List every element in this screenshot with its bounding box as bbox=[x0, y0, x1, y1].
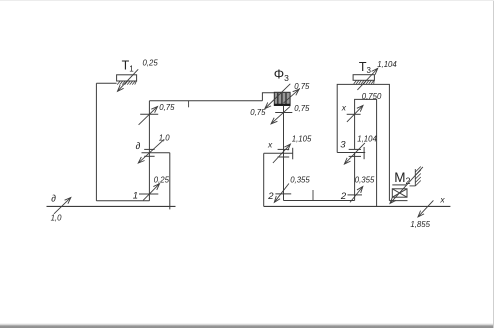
svg-text:2: 2 bbox=[340, 191, 347, 202]
arrow node (0,75) bbox=[139, 107, 158, 125]
value label 0,25 (T1) bbox=[143, 59, 159, 68]
node d upper bar bbox=[144, 148, 154, 150]
wire left loop bottom bbox=[96, 200, 149, 202]
label node 1 bbox=[133, 191, 138, 202]
svg-text:0,75: 0,75 bbox=[159, 103, 175, 112]
label node 2 left bbox=[267, 191, 274, 202]
arrow through T3 (1,104) bbox=[357, 69, 377, 90]
value label 0,75 (Phi3 down) bbox=[250, 108, 266, 117]
tick on inner bottom wire bbox=[312, 190, 314, 201]
node 3 long bar bbox=[337, 152, 365, 154]
arrow Phi3 down (0,75) bbox=[265, 84, 290, 109]
node x right bracket bbox=[292, 148, 294, 160]
label node 2 right bbox=[340, 191, 347, 202]
wire step to Phi3 bbox=[262, 93, 274, 101]
node 1 tick bar bbox=[139, 193, 158, 195]
svg-text:0,75: 0,75 bbox=[294, 104, 310, 113]
value label 1,0 (left axis) bbox=[51, 213, 63, 222]
arrow through T1 (0,25) bbox=[118, 69, 139, 91]
node 0,75 tick bar bbox=[140, 113, 158, 115]
wire left vertical bbox=[95, 83, 97, 201]
value label 0,75 (below Phi3) bbox=[294, 104, 310, 113]
arrow node 2 left (0,355) bbox=[274, 184, 289, 203]
node x lower bar bbox=[278, 156, 290, 158]
svg-text:T3: T3 bbox=[359, 60, 372, 75]
node x upper bar bbox=[278, 148, 290, 150]
svg-text:0,750: 0,750 bbox=[362, 92, 382, 101]
label Phi3 bbox=[274, 67, 289, 83]
block M2 crossed box bbox=[392, 189, 407, 197]
wire below Phi3 bbox=[283, 105, 285, 200]
svg-text:1,104: 1,104 bbox=[357, 134, 377, 143]
svg-text:x: x bbox=[439, 194, 445, 204]
arrow node 2 right (0,355) bbox=[350, 187, 363, 203]
svg-text:1,104: 1,104 bbox=[377, 60, 397, 69]
arrow through M2 (1,855) bbox=[390, 167, 423, 203]
value label 0,75 (upper node) bbox=[159, 103, 175, 112]
svg-text:1,0: 1,0 bbox=[159, 134, 171, 143]
label node 3 bbox=[340, 140, 346, 151]
wire top horizontal bbox=[149, 100, 262, 102]
node d long bar bbox=[142, 152, 170, 154]
arrow Phi3 up (0,75) bbox=[284, 89, 299, 103]
bar below M2 bbox=[389, 200, 407, 202]
label x at axis end bbox=[439, 194, 445, 204]
svg-text:x: x bbox=[341, 103, 347, 113]
block Phi3 (hatched) bbox=[274, 92, 290, 105]
label node d bbox=[136, 141, 141, 152]
arrow node d (1,0) bbox=[138, 139, 164, 163]
axis line right bbox=[264, 205, 451, 207]
svg-text:x: x bbox=[267, 140, 273, 150]
arrow node x T3 (0,750) bbox=[347, 106, 363, 122]
svg-text:Φ3: Φ3 bbox=[274, 67, 289, 83]
arrow node 1 (0,25) bbox=[143, 184, 159, 201]
svg-text:0,75: 0,75 bbox=[294, 82, 310, 91]
svg-text:1,0: 1,0 bbox=[51, 213, 63, 222]
node below Phi3 tick bar bbox=[275, 112, 292, 114]
svg-text:2: 2 bbox=[267, 191, 274, 202]
wire T1 to left edge bbox=[96, 82, 116, 84]
svg-text:1,105: 1,105 bbox=[292, 134, 312, 143]
node x main bar bbox=[264, 152, 293, 154]
arrow node 3 (1,104) bbox=[345, 143, 365, 164]
wire inner bottom bbox=[284, 200, 355, 202]
svg-text:0,355: 0,355 bbox=[290, 175, 310, 184]
arrow below Phi3 (0,75) bbox=[271, 106, 290, 123]
wire main left vertical bbox=[148, 101, 150, 201]
arrow node x (1,105) bbox=[273, 144, 290, 163]
svg-text:∂: ∂ bbox=[51, 194, 56, 205]
value label 0,25 (node 1) bbox=[154, 175, 170, 184]
wire T3 outer loop bbox=[337, 84, 389, 200]
node d lower bar bbox=[144, 155, 154, 157]
wall hatching at M2 bbox=[410, 167, 421, 187]
svg-text:3: 3 bbox=[340, 140, 346, 151]
label T3 bbox=[359, 60, 372, 75]
svg-text:T1: T1 bbox=[122, 59, 135, 74]
value label 1,104 (T3) bbox=[377, 60, 397, 69]
value label 0,750 bbox=[362, 92, 382, 101]
label d at left axis bbox=[51, 194, 56, 205]
node 2 left tick bar bbox=[275, 193, 291, 195]
label M2 bbox=[394, 170, 410, 186]
svg-text:∂: ∂ bbox=[136, 141, 141, 152]
svg-text:0,25: 0,25 bbox=[154, 175, 170, 184]
value label 1,104 (node 3) bbox=[357, 134, 377, 143]
top frame border bbox=[0, 0, 494, 1]
value label 0,355 (left) bbox=[290, 175, 310, 184]
wire T3 inner loop bbox=[355, 99, 377, 206]
support T1 body with hatching bbox=[117, 75, 137, 85]
svg-text:1: 1 bbox=[133, 191, 138, 202]
svg-text:0,355: 0,355 bbox=[355, 175, 375, 184]
wire below node 3 bbox=[354, 153, 356, 201]
arrow at left axis (1,0) bbox=[54, 198, 71, 214]
axis line left bbox=[47, 205, 176, 207]
svg-text:0,75: 0,75 bbox=[250, 108, 266, 117]
bottom frame border bbox=[0, 323, 494, 328]
node 3 right bracket bbox=[363, 147, 365, 159]
label node x (middle) bbox=[267, 140, 273, 150]
label T1 bbox=[122, 59, 135, 74]
node x T3 tick bar bbox=[347, 113, 361, 115]
label node x (T3) bbox=[341, 103, 347, 113]
wire middle loop left edge bbox=[263, 153, 265, 206]
value label 0,75 (Phi3 up) bbox=[294, 82, 310, 91]
node 3 lower bar bbox=[349, 155, 361, 157]
right frame border bbox=[493, 0, 494, 328]
node 2 right tick bar bbox=[348, 194, 363, 196]
tick on top wire bbox=[188, 101, 190, 108]
wire right of node1 vertical bbox=[169, 153, 171, 210]
bar above M2 bbox=[392, 184, 406, 186]
arrow at axis end (1,855) bbox=[418, 200, 433, 216]
value label 1,105 bbox=[292, 134, 312, 143]
node 3 upper bar bbox=[349, 148, 361, 150]
value label 1,855 bbox=[410, 220, 430, 229]
value label 1,0 (node d) bbox=[159, 134, 171, 143]
svg-text:0,25: 0,25 bbox=[143, 59, 159, 68]
value label 0,355 (right) bbox=[355, 175, 375, 184]
support T3 body with hatching bbox=[353, 75, 374, 84]
svg-text:1,855: 1,855 bbox=[410, 220, 430, 229]
